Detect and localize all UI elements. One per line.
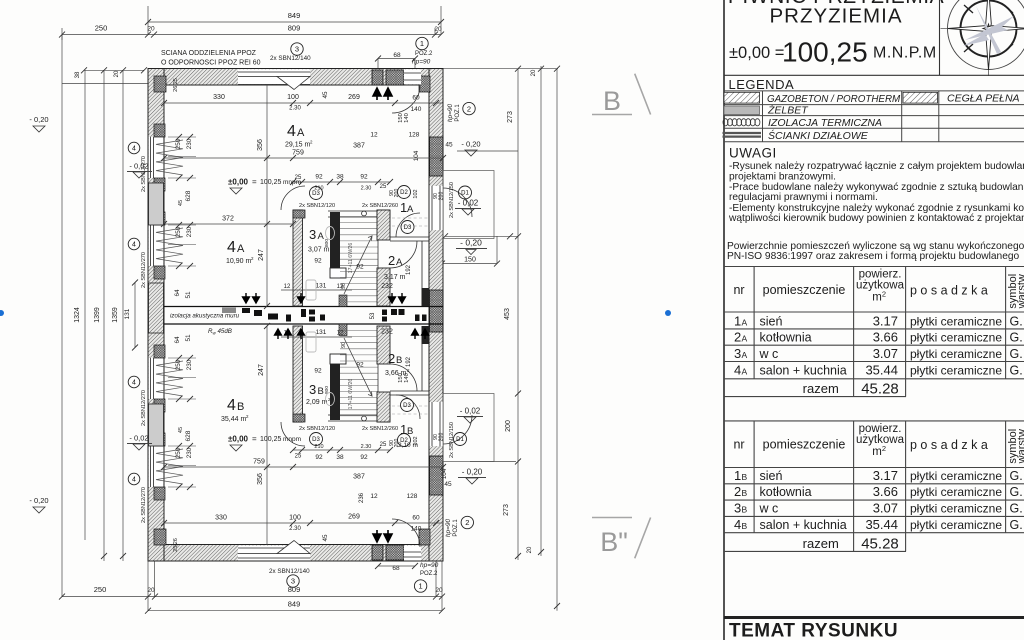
svg-text:hp=90: hp=90 bbox=[445, 518, 452, 537]
svg-text:G.: G. bbox=[1010, 364, 1023, 378]
room label 3B bbox=[306, 382, 331, 406]
level mark lower bbox=[228, 435, 301, 452]
2A right wall bbox=[422, 241, 430, 306]
upper stair right wall bbox=[377, 210, 390, 240]
svg-text:20: 20 bbox=[435, 587, 443, 594]
svg-text:IZOLACJA TERMICZNA: IZOLACJA TERMICZNA bbox=[768, 117, 882, 129]
svg-text:=: = bbox=[252, 178, 257, 187]
svg-text:250: 250 bbox=[95, 24, 108, 33]
svg-text:100,25: 100,25 bbox=[782, 37, 868, 68]
svg-text:387: 387 bbox=[353, 143, 365, 150]
dimension line 849 bottom bbox=[145, 600, 445, 614]
svg-text:D1: D1 bbox=[461, 191, 469, 197]
extension stubs bbox=[62, 6, 442, 611]
note 2x SBN12/140 bottom bbox=[269, 568, 310, 587]
top wall flue blocks bbox=[372, 70, 404, 100]
left wall window at y 446-487 bbox=[149, 433, 196, 500]
svg-text:849: 849 bbox=[288, 600, 301, 609]
svg-text:3: 3 bbox=[309, 227, 316, 242]
svg-text:CEGŁA PEŁNA: CEGŁA PEŁNA bbox=[947, 93, 1020, 105]
svg-text:O ODPORNOSCI PPOZ REI 60: O ODPORNOSCI PPOZ REI 60 bbox=[161, 60, 261, 67]
svg-text:3.66: 3.66 bbox=[873, 330, 898, 345]
svg-text:140: 140 bbox=[404, 113, 410, 123]
svg-text:45: 45 bbox=[322, 534, 329, 542]
level -0,02 upper porch bbox=[455, 199, 481, 216]
svg-text:UWAGI: UWAGI bbox=[729, 146, 777, 161]
svg-text:A: A bbox=[742, 334, 748, 344]
svg-text:150: 150 bbox=[464, 257, 476, 264]
svg-text:D3: D3 bbox=[312, 191, 320, 197]
svg-text:273: 273 bbox=[503, 504, 510, 516]
svg-text:3.66: 3.66 bbox=[873, 484, 898, 499]
party wall band bbox=[164, 295, 443, 336]
svg-text:POZ.1: POZ.1 bbox=[455, 104, 461, 122]
svg-text:2.30: 2.30 bbox=[289, 526, 301, 532]
door D3 arc to 2A bbox=[390, 241, 417, 268]
svg-text:247: 247 bbox=[258, 249, 265, 261]
upper stair treads bbox=[340, 210, 378, 306]
svg-text:hp=90: hp=90 bbox=[447, 103, 454, 122]
svg-text:29,15 m: 29,15 m bbox=[285, 142, 310, 149]
room table B bbox=[724, 421, 1024, 552]
svg-text:90: 90 bbox=[341, 283, 347, 289]
svg-text:2x SBN12/270: 2x SBN12/270 bbox=[141, 390, 147, 426]
svg-text:100: 100 bbox=[287, 94, 299, 101]
svg-text:G.: G. bbox=[1010, 501, 1023, 515]
svg-text:12: 12 bbox=[370, 132, 378, 139]
svg-text:B: B bbox=[237, 401, 244, 413]
svg-text:2x SBN12/260: 2x SBN12/260 bbox=[362, 203, 398, 209]
right wall entrance door D1 lower bbox=[430, 402, 473, 446]
svg-text:B: B bbox=[742, 521, 748, 531]
svg-text:92: 92 bbox=[315, 454, 323, 461]
svg-text:3.07: 3.07 bbox=[873, 346, 898, 361]
svg-text:=: = bbox=[252, 435, 257, 444]
svg-text:4: 4 bbox=[132, 242, 136, 249]
legend swatch zelbet bbox=[724, 106, 760, 115]
extra 90/200 labels right doors bbox=[433, 192, 445, 442]
note POZ1 right top bbox=[447, 102, 475, 122]
svg-text:102: 102 bbox=[413, 189, 419, 198]
svg-text:G.: G. bbox=[1010, 485, 1023, 499]
dim 68 top bbox=[375, 56, 418, 69]
svg-text:250: 250 bbox=[94, 585, 107, 594]
svg-text:płytki ceramiczne: płytki ceramiczne bbox=[910, 485, 1002, 499]
svg-text:3: 3 bbox=[291, 577, 295, 586]
svg-text:128: 128 bbox=[407, 493, 418, 500]
svg-text:12: 12 bbox=[284, 284, 291, 290]
svg-text:mnpm: mnpm bbox=[283, 179, 301, 186]
room label 2B bbox=[385, 351, 410, 377]
upper stair top wall bbox=[293, 210, 390, 218]
svg-text:1: 1 bbox=[734, 468, 741, 483]
svg-text:1: 1 bbox=[420, 39, 424, 48]
svg-text:D2: D2 bbox=[400, 438, 408, 444]
svg-text:2: 2 bbox=[467, 104, 471, 113]
svg-text:230: 230 bbox=[186, 359, 193, 370]
svg-text:60: 60 bbox=[412, 95, 420, 102]
corner flue blocks bbox=[154, 76, 430, 545]
room label 2A bbox=[384, 253, 406, 281]
room label 4A kitchen bbox=[226, 239, 254, 265]
svg-text:- 0,02: - 0,02 bbox=[460, 407, 481, 416]
svg-text:25: 25 bbox=[295, 454, 302, 460]
svg-text:2: 2 bbox=[388, 253, 395, 268]
svg-text:128: 128 bbox=[409, 132, 420, 139]
bottom interior dim chain bbox=[161, 514, 443, 542]
svg-text:20: 20 bbox=[147, 26, 155, 33]
svg-text:D2: D2 bbox=[400, 190, 408, 196]
dimension line 250/20/809/20 top bbox=[59, 24, 444, 38]
svg-text:pomieszczenie: pomieszczenie bbox=[763, 438, 846, 452]
svg-text:45: 45 bbox=[444, 481, 452, 488]
svg-text:38: 38 bbox=[75, 71, 81, 78]
svg-text:2.30: 2.30 bbox=[361, 444, 372, 450]
svg-text:192: 192 bbox=[406, 264, 412, 275]
svg-text:B: B bbox=[396, 355, 402, 366]
svg-text:809: 809 bbox=[288, 24, 301, 33]
top wall window opening bbox=[238, 69, 310, 89]
svg-text:2x SBN12/260: 2x SBN12/260 bbox=[362, 426, 398, 432]
svg-text:92: 92 bbox=[356, 362, 364, 369]
lower stair center wall bbox=[330, 354, 346, 420]
svg-text:2x SBN12/120: 2x SBN12/120 bbox=[299, 203, 335, 209]
sbn notes middle bbox=[299, 182, 455, 458]
svg-text:warstw: warstw bbox=[1016, 274, 1024, 309]
section mark B top bbox=[592, 74, 651, 115]
svg-text:nr: nr bbox=[733, 283, 744, 297]
svg-text:356: 356 bbox=[257, 473, 264, 485]
svg-text:236: 236 bbox=[359, 492, 365, 503]
svg-text:3.17: 3.17 bbox=[873, 313, 898, 328]
svg-text:51: 51 bbox=[185, 334, 192, 342]
svg-text:2: 2 bbox=[465, 518, 469, 527]
svg-text:kotłownia: kotłownia bbox=[760, 331, 812, 345]
interior dim 759 upper bbox=[161, 143, 446, 162]
svg-text:- 0,20: - 0,20 bbox=[461, 140, 480, 149]
svg-text:hp=90: hp=90 bbox=[420, 562, 439, 569]
wall between 1A and 2A bbox=[390, 213, 429, 241]
top interior dim chain bbox=[161, 91, 443, 113]
svg-text:230: 230 bbox=[186, 138, 193, 149]
svg-text:LEGENDA: LEGENDA bbox=[729, 77, 795, 92]
svg-text:płytki ceramiczne: płytki ceramiczne bbox=[910, 364, 1002, 378]
svg-text:20: 20 bbox=[531, 69, 537, 76]
svg-text:849: 849 bbox=[288, 11, 301, 20]
svg-text:35,44 m: 35,44 m bbox=[221, 416, 246, 423]
svg-text:POZ.2: POZ.2 bbox=[420, 571, 438, 577]
interior vertical chain x267 lower bbox=[257, 323, 270, 545]
legend swatch izolacja bbox=[723, 119, 760, 126]
svg-text:230: 230 bbox=[186, 226, 193, 237]
svg-text:A: A bbox=[742, 367, 748, 377]
svg-text:razem: razem bbox=[803, 381, 839, 396]
note POZ2 top bbox=[412, 37, 433, 65]
svg-text:4: 4 bbox=[132, 380, 136, 387]
svg-text:A: A bbox=[742, 317, 748, 327]
svg-text:45.28: 45.28 bbox=[861, 535, 899, 552]
svg-text:2x SBN12/270: 2x SBN12/270 bbox=[141, 252, 147, 288]
svg-text:3,07 m: 3,07 m bbox=[308, 247, 330, 254]
svg-text:4: 4 bbox=[132, 477, 136, 484]
svg-text:250: 250 bbox=[175, 447, 182, 458]
svg-text:B: B bbox=[318, 386, 324, 397]
lower entry porch outline bbox=[443, 394, 494, 462]
wc fixtures bbox=[306, 227, 335, 406]
svg-text:92: 92 bbox=[315, 174, 323, 181]
svg-text:- 0,02: - 0,02 bbox=[129, 162, 148, 171]
svg-text:GAZOBETON / POROTHERM: GAZOBETON / POROTHERM bbox=[767, 94, 901, 105]
legend table lines bbox=[724, 91, 1024, 142]
left wall pilaster blocks bbox=[149, 183, 164, 225]
svg-text:1324: 1324 bbox=[74, 307, 81, 323]
svg-text:-Rysunek należy rozpatrywać łą: -Rysunek należy rozpatrywać łącznie z ca… bbox=[729, 161, 1024, 172]
svg-text:użytkowa: użytkowa bbox=[856, 434, 905, 446]
wall between 1B and 2B bbox=[390, 391, 429, 419]
svg-text:131: 131 bbox=[316, 329, 327, 336]
svg-text:4: 4 bbox=[227, 397, 236, 414]
svg-text:104: 104 bbox=[413, 150, 420, 161]
svg-text:17+11 6W/26: 17+11 6W/26 bbox=[348, 243, 354, 274]
svg-text:45: 45 bbox=[178, 427, 184, 433]
room label 1A bbox=[400, 200, 414, 215]
svg-text:90: 90 bbox=[341, 342, 347, 348]
svg-text:- 0,20: - 0,20 bbox=[29, 115, 48, 124]
svg-text:3.07: 3.07 bbox=[873, 500, 898, 515]
svg-text:izolacja akustyczna muru: izolacja akustyczna muru bbox=[170, 313, 240, 320]
svg-text:2: 2 bbox=[882, 289, 886, 298]
upper stair walking line bbox=[344, 236, 372, 294]
svg-text:3: 3 bbox=[309, 382, 316, 397]
svg-text:250: 250 bbox=[175, 138, 182, 149]
svg-text:±0,00: ±0,00 bbox=[228, 435, 249, 444]
svg-text:2x SBN12/140: 2x SBN12/140 bbox=[269, 568, 310, 575]
svg-text:pomieszczenie: pomieszczenie bbox=[763, 283, 846, 297]
svg-text:A: A bbox=[396, 257, 403, 268]
svg-text:PRZYZIEMIA: PRZYZIEMIA bbox=[769, 5, 902, 28]
svg-text:20: 20 bbox=[147, 587, 155, 594]
svg-text:628: 628 bbox=[185, 190, 192, 201]
header separator bbox=[724, 74, 1024, 76]
svg-text:użytkowa: użytkowa bbox=[856, 279, 905, 291]
level line bbox=[729, 37, 937, 68]
svg-text:64: 64 bbox=[174, 336, 181, 344]
svg-text:- 0,02: - 0,02 bbox=[129, 434, 148, 443]
svg-text:warstw: warstw bbox=[1016, 429, 1024, 464]
svg-text:p o s a d z k a: p o s a d z k a bbox=[910, 283, 988, 297]
svg-text:4: 4 bbox=[227, 239, 236, 256]
svg-text:45: 45 bbox=[178, 200, 184, 206]
12/131/12 chain lower bbox=[281, 329, 393, 348]
door D2 arc 1A bbox=[392, 85, 420, 113]
svg-text:68: 68 bbox=[393, 52, 401, 59]
svg-text:20: 20 bbox=[114, 70, 120, 77]
svg-text:38: 38 bbox=[336, 454, 344, 461]
svg-text:G.: G. bbox=[1010, 347, 1023, 361]
blue nav dot right bbox=[665, 310, 671, 316]
svg-text:razem: razem bbox=[803, 536, 839, 551]
svg-text:247: 247 bbox=[258, 364, 265, 376]
svg-text:759: 759 bbox=[292, 150, 304, 157]
svg-text:131: 131 bbox=[316, 283, 327, 290]
right horizontal dimension lines bbox=[439, 69, 558, 462]
dim 68 bottom bbox=[375, 563, 418, 569]
svg-text:płytki ceramiczne: płytki ceramiczne bbox=[910, 331, 1002, 345]
svg-text:- 0,20: - 0,20 bbox=[460, 238, 482, 248]
svg-text:2x SBN12/150: 2x SBN12/150 bbox=[449, 182, 455, 218]
svg-text:330: 330 bbox=[215, 515, 227, 522]
room label 1B bbox=[398, 422, 418, 449]
svg-text:nr: nr bbox=[733, 438, 744, 452]
door circles lower bbox=[310, 399, 467, 447]
svg-text:płytki ceramiczne: płytki ceramiczne bbox=[910, 501, 1002, 515]
svg-text:2: 2 bbox=[388, 351, 395, 366]
svg-text:372: 372 bbox=[222, 216, 234, 223]
svg-text:3: 3 bbox=[734, 346, 741, 361]
svg-text:A: A bbox=[407, 204, 414, 215]
svg-text:salon + kuchnia: salon + kuchnia bbox=[760, 364, 847, 378]
bottom wall flue blocks bbox=[372, 530, 404, 560]
svg-text:45.28: 45.28 bbox=[861, 381, 899, 398]
top wall door POZ2 bbox=[404, 69, 421, 84]
svg-text:2x SBN12/270: 2x SBN12/270 bbox=[141, 487, 147, 523]
svg-text:M.N.P.M: M.N.P.M bbox=[873, 45, 937, 62]
vent arrows upper bbox=[243, 293, 406, 303]
svg-text:Rw 45dB: Rw 45dB bbox=[208, 328, 232, 336]
svg-text:20: 20 bbox=[527, 546, 533, 553]
1B dashed floor lines bbox=[392, 406, 428, 414]
note POZ2 bottom bbox=[414, 562, 438, 592]
door D3 arc to 2B bbox=[390, 364, 417, 391]
svg-text:1: 1 bbox=[419, 582, 423, 591]
svg-text:G.: G. bbox=[1010, 469, 1023, 483]
svg-text:hp=90: hp=90 bbox=[412, 59, 431, 66]
svg-text:192: 192 bbox=[406, 356, 412, 367]
left wall window at y 225-266 bbox=[149, 212, 196, 279]
svg-text:2x SBN12/150: 2x SBN12/150 bbox=[449, 422, 455, 458]
svg-text:51: 51 bbox=[185, 291, 192, 299]
svg-text:131: 131 bbox=[124, 308, 131, 319]
svg-text:92: 92 bbox=[356, 264, 364, 271]
svg-text:B: B bbox=[603, 86, 621, 116]
svg-text:232: 232 bbox=[381, 329, 393, 336]
svg-text:2: 2 bbox=[734, 330, 741, 345]
svg-text:sień: sień bbox=[760, 314, 783, 328]
svg-text:- 0,20: - 0,20 bbox=[462, 468, 483, 477]
svg-text:4: 4 bbox=[734, 363, 741, 378]
dimension line 250/20/809 bottom bbox=[59, 585, 445, 600]
fire wall note bbox=[161, 50, 261, 67]
svg-text:POZ.2: POZ.2 bbox=[415, 51, 433, 57]
svg-text:25|26: 25|26 bbox=[173, 538, 179, 552]
-0,02 left lower bbox=[127, 434, 152, 451]
svg-text:4: 4 bbox=[287, 123, 296, 140]
legend swatch cegla bbox=[903, 92, 938, 103]
svg-text:26|25: 26|25 bbox=[173, 78, 179, 92]
level mark upper bbox=[228, 178, 301, 195]
svg-text:2: 2 bbox=[734, 484, 741, 499]
12/131/12 chain upper bbox=[281, 283, 393, 320]
stair dim chain upper bbox=[290, 174, 419, 199]
svg-text:330: 330 bbox=[213, 94, 225, 101]
svg-text:3,66 m: 3,66 m bbox=[385, 370, 407, 377]
svg-text:3: 3 bbox=[734, 500, 741, 515]
right wall dark blocks bbox=[430, 137, 444, 176]
svg-text:100: 100 bbox=[289, 515, 301, 522]
dimension line 849 top bbox=[145, 11, 444, 25]
lower stair right wall bbox=[377, 392, 390, 422]
svg-text:356: 356 bbox=[257, 139, 264, 151]
svg-text:453: 453 bbox=[504, 308, 511, 320]
svg-text:35.44: 35.44 bbox=[865, 363, 898, 378]
svg-text:10,90 m: 10,90 m bbox=[226, 258, 251, 265]
svg-text:35.44: 35.44 bbox=[865, 517, 898, 532]
svg-text:G.: G. bbox=[1010, 331, 1023, 345]
room table A bbox=[724, 267, 1024, 398]
svg-text:60: 60 bbox=[412, 515, 420, 522]
svg-text:200: 200 bbox=[439, 192, 445, 201]
svg-text:płytki ceramiczne: płytki ceramiczne bbox=[910, 469, 1002, 483]
svg-text:200: 200 bbox=[505, 420, 512, 432]
svg-text:mnpm: mnpm bbox=[283, 436, 301, 443]
svg-text:- 0,02: - 0,02 bbox=[458, 199, 479, 208]
svg-text:A: A bbox=[297, 127, 305, 139]
lower stair walking line bbox=[344, 338, 372, 396]
svg-text:1359: 1359 bbox=[112, 307, 119, 323]
door circles upper bbox=[310, 186, 472, 234]
level -0,20 right bottom bbox=[458, 468, 486, 485]
door D2 arc 1B bbox=[392, 519, 420, 547]
svg-text:w c: w c bbox=[759, 347, 779, 361]
svg-text:płytki ceramiczne: płytki ceramiczne bbox=[910, 314, 1002, 328]
svg-text:G.: G. bbox=[1010, 314, 1023, 328]
svg-text:D3: D3 bbox=[403, 403, 411, 409]
note 2x SBN12/140 top bbox=[270, 43, 311, 62]
window marker circle 4 bbox=[128, 238, 147, 288]
left wall window at y 358-399 bbox=[149, 345, 196, 412]
legend swatch scianki bbox=[723, 133, 762, 137]
svg-text:A: A bbox=[318, 231, 325, 242]
svg-text:3.17: 3.17 bbox=[873, 468, 898, 483]
misc small dims bbox=[173, 52, 453, 572]
svg-text:140: 140 bbox=[411, 526, 422, 533]
svg-text:A: A bbox=[237, 243, 245, 255]
svg-text:2.30: 2.30 bbox=[361, 186, 372, 192]
svg-text:38: 38 bbox=[336, 174, 344, 181]
interior dim 372 upper bbox=[161, 216, 296, 228]
room label 4A upper bbox=[285, 123, 313, 149]
2B right wall bbox=[422, 326, 430, 391]
svg-text:269: 269 bbox=[348, 94, 360, 101]
right vertical dimension lines bbox=[497, 66, 560, 611]
uwagi notes bbox=[728, 161, 1024, 224]
svg-text:B: B bbox=[742, 504, 748, 514]
temat rysunku header bbox=[724, 618, 1024, 640]
left vertical dimension lines bbox=[62, 35, 138, 597]
svg-text:2: 2 bbox=[882, 444, 886, 453]
upper stair left wall bbox=[293, 210, 303, 306]
blue nav dot left bbox=[0, 310, 4, 316]
bottom wall window opening bbox=[238, 541, 310, 561]
lower stair bottom wall bbox=[293, 414, 390, 422]
svg-text:ŻELBET: ŻELBET bbox=[767, 105, 809, 117]
level -0,20 right top bbox=[461, 140, 480, 157]
svg-text:17+11 6W/26: 17+11 6W/26 bbox=[348, 379, 354, 410]
svg-text:250: 250 bbox=[175, 359, 182, 370]
svg-text:92: 92 bbox=[314, 258, 322, 265]
legend swatch gazobeton bbox=[724, 92, 760, 103]
left -0,20 level marks bbox=[29, 115, 48, 513]
